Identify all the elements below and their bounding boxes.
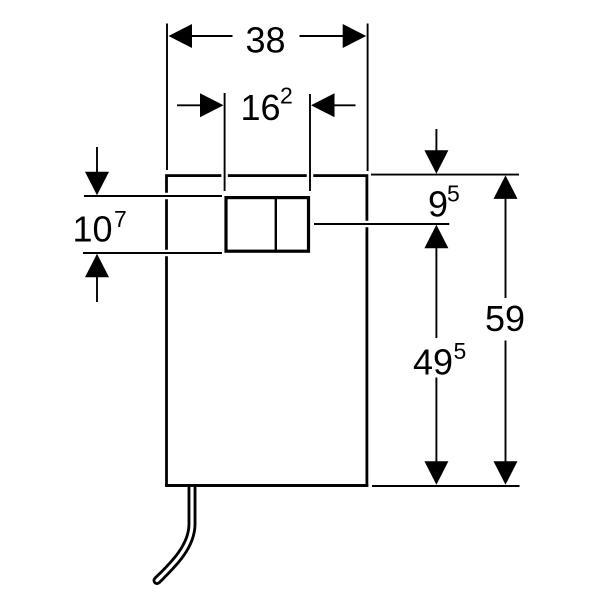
extension line 38 left xyxy=(166,24,168,171)
reference line plate top left xyxy=(84,195,222,197)
dim 38 arrow right xyxy=(343,24,367,48)
casing plate-center ref line xyxy=(314,221,449,228)
reference line plate bottom left xyxy=(83,252,222,254)
svg-text:9: 9 xyxy=(428,184,448,225)
flush plate divider xyxy=(275,196,277,252)
extension line 38 right xyxy=(367,24,369,172)
dim 59 line upper segment xyxy=(505,198,507,299)
dim 10.7 bottom arrow xyxy=(85,254,109,277)
dim 9.5 bottom arrow xyxy=(424,225,448,249)
svg-text:10: 10 xyxy=(73,208,113,249)
dim 10.7 bottom tail xyxy=(96,276,98,302)
dim 10.7 top tail xyxy=(96,147,98,173)
dim 59 bottom arrow xyxy=(494,461,518,485)
dim 9.5 top tail xyxy=(435,129,437,152)
water supply hose tip outline xyxy=(157,576,161,580)
dim 38 arrow left xyxy=(169,24,193,48)
dim 49.5 line lower segment xyxy=(435,378,437,464)
svg-text:49: 49 xyxy=(413,342,453,383)
casing plate-top ref line xyxy=(84,193,222,200)
extension line 16.2 left xyxy=(224,93,226,191)
dim 16.2 tail right xyxy=(334,104,356,106)
body bottom edge over hose xyxy=(165,484,368,487)
casing 16.2 ext left xyxy=(221,93,228,191)
dim 59 top arrow xyxy=(494,175,518,199)
svg-text:38: 38 xyxy=(246,19,286,60)
dim 49.5 bottom arrow xyxy=(424,461,448,485)
reference line body top right xyxy=(371,174,519,176)
dim 49.5 line upper segment xyxy=(435,247,437,338)
dim 16.2 arrow right xyxy=(311,93,335,117)
casing plate-bottom ref line xyxy=(83,250,222,257)
svg-text:16: 16 xyxy=(241,87,281,128)
svg-text:5: 5 xyxy=(454,338,467,364)
dim 38 line right segment xyxy=(300,35,346,37)
reference line plate center right xyxy=(314,223,449,225)
svg-text:7: 7 xyxy=(114,206,127,232)
reference line body bottom right xyxy=(372,485,520,487)
svg-text:59: 59 xyxy=(485,298,525,339)
dim 10.7 top arrow xyxy=(85,172,109,196)
dim 59 line lower segment xyxy=(505,341,507,464)
water supply hose outline xyxy=(157,484,192,580)
extension line 16.2 right xyxy=(309,94,311,191)
dim 16.2 arrow left xyxy=(200,93,224,117)
water supply hose interior xyxy=(157,484,192,580)
dim 38 line left segment xyxy=(190,35,233,37)
water supply hose tip interior xyxy=(157,576,161,580)
casing 16.2 ext right xyxy=(307,94,314,191)
dim 16.2 tail left xyxy=(177,104,201,106)
svg-text:5: 5 xyxy=(447,181,460,207)
flush plate outline xyxy=(226,198,309,252)
cistern body outline xyxy=(167,176,367,486)
svg-text:2: 2 xyxy=(280,83,293,109)
dim 9.5 top arrow xyxy=(424,150,448,174)
